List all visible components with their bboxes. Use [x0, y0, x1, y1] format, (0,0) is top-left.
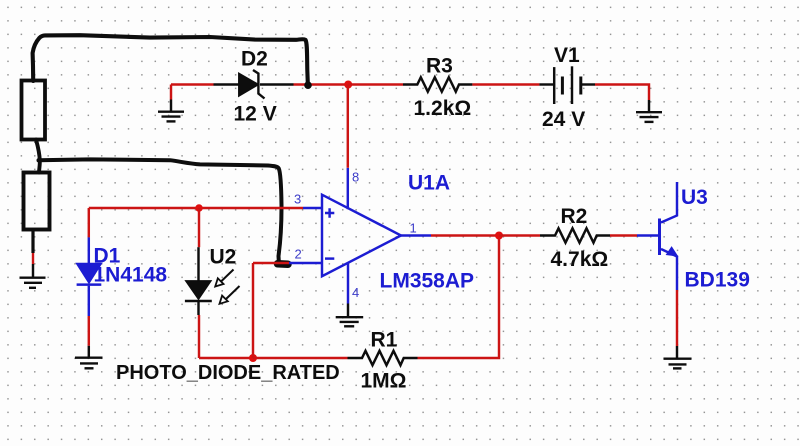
photodiode light arrow 2 — [220, 286, 240, 304]
ground below D1 — [75, 346, 103, 369]
wire box2 bottom to ground — [31, 230, 34, 265]
photodiode light arrow 1 — [215, 270, 233, 287]
photodiode U2 — [185, 208, 236, 358]
resistor R1 1M — [348, 329, 418, 393]
svg-text:BD139: BD139 — [685, 269, 750, 292]
wire junction to R1 — [253, 357, 348, 359]
svg-text:2: 2 — [295, 247, 302, 262]
net label PHOTO_DIODE_RATED — [116, 362, 340, 384]
svg-text:LM358AP: LM358AP — [380, 270, 475, 293]
svg-text:1.2kΩ: 1.2kΩ — [414, 97, 472, 120]
wire transistor emitter to ground — [676, 290, 678, 346]
node: junction at U2 column on pin3 wire — [195, 204, 203, 212]
wire V1 to right ground — [595, 85, 649, 101]
node: freehand wire tap on rail — [304, 81, 312, 89]
wire R3 to V1 — [472, 83, 539, 85]
svg-text:U1A: U1A — [408, 172, 450, 195]
svg-text:V1: V1 — [554, 44, 580, 67]
ground right of V1 — [636, 100, 662, 122]
svg-text:4.7kΩ: 4.7kΩ — [551, 248, 609, 271]
node: rail junction to op-amp V+ — [344, 81, 352, 89]
svg-text:3: 3 — [294, 192, 301, 207]
wire D2 cathode to rail junction — [294, 83, 349, 85]
svg-text:24 V: 24 V — [542, 108, 585, 131]
wire rail junction down to op-amp pin8 — [347, 85, 349, 168]
battery V1 24V — [539, 44, 595, 131]
wire output node to R2 — [499, 234, 540, 236]
ground symbol near D2 — [158, 85, 184, 122]
svg-text:12 V: 12 V — [234, 103, 277, 126]
node: bottom junction — [249, 354, 257, 362]
freehand wire end blob at node — [278, 260, 289, 268]
svg-text:1MΩ: 1MΩ — [361, 370, 407, 393]
resistor box 1 (hand drawn) — [22, 81, 46, 140]
wire ground to D2 anode — [171, 83, 214, 85]
svg-text:PHOTO_DIODE_RATED: PHOTO_DIODE_RATED — [116, 362, 340, 384]
node: output junction — [495, 232, 503, 240]
wire R2 to transistor base — [610, 234, 658, 236]
svg-text:4: 4 — [352, 285, 359, 300]
wire riser junction to inverting node — [252, 263, 254, 358]
freehand wire from R-box1 top to rail tap — [33, 35, 308, 83]
svg-text:1: 1 — [410, 221, 417, 236]
wire R1 to output riser — [418, 236, 500, 359]
svg-text:R2: R2 — [561, 205, 588, 228]
svg-text:D2: D2 — [241, 48, 268, 71]
svg-text:U2: U2 — [210, 246, 237, 269]
svg-text:R1: R1 — [371, 329, 398, 352]
wire inverting node to op-amp pin2 — [253, 262, 322, 264]
resistor box 2 (hand drawn) — [24, 173, 50, 230]
diode D1 1N4148 — [77, 208, 168, 346]
zener diode D2 12V — [214, 48, 294, 126]
svg-text:U3: U3 — [681, 186, 708, 209]
op-amp U1A LM358AP — [294, 168, 474, 304]
resistor R2 4.7k — [540, 205, 610, 271]
ground below transistor — [664, 346, 692, 368]
svg-text:8: 8 — [352, 170, 359, 185]
ground below box2 — [20, 264, 46, 288]
svg-text:R3: R3 — [426, 55, 453, 78]
wire D1 column to non-inverting input — [89, 207, 303, 209]
wire junction to R3 — [348, 83, 403, 85]
resistor R3 1.2k — [403, 55, 472, 121]
transistor U3 BD139 — [660, 182, 750, 292]
wire box1 bottom to box2 top — [36, 140, 40, 173]
wire op-amp output to node — [431, 234, 499, 236]
wire U2 bottom corner to junction dot — [199, 357, 253, 359]
ground below op-amp pin4 — [336, 304, 364, 327]
freehand wire from box joint to inverting input junction — [39, 159, 282, 261]
svg-text:1N4148: 1N4148 — [94, 264, 168, 287]
